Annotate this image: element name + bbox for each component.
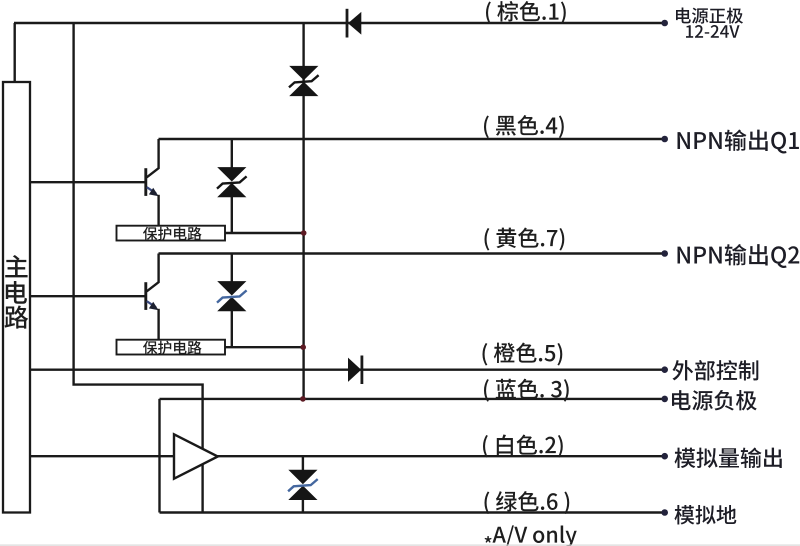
junction dot node K2 [300,344,306,350]
TVS diode Z1 bidirectional [289,66,318,80]
transistor Q2 collector [147,254,159,292]
transistor Q2 emitter line [147,301,156,307]
wire base Q1 [30,181,145,183]
TVS diode Z2 lower lead [231,197,233,234]
protection circuit box 2 [117,340,226,355]
label (绿色.6) [484,491,569,514]
transistor Q1 emitter line [147,187,156,193]
label (白色.2) [483,435,563,458]
transistor Q1 collector [147,139,159,177]
wire main vertical bus [302,23,304,399]
op-amp block left edge [158,399,160,513]
wire NPN Q1 output [159,138,665,140]
TVS diode Z2 bidirectional [217,167,246,181]
transistor Q1 base bar [144,168,147,196]
wire protection box 2 to bus [225,346,304,348]
TVS diode Z2 upper lead [231,139,233,168]
label 模拟地 [674,505,736,524]
bottom edge artifact line [0,545,800,546]
diode D2 bar [360,356,363,385]
wire NPN Q2 output [159,252,665,254]
TVS diode Z3 upper lead [231,254,233,282]
label A/V only [493,525,577,546]
label (棕色.1) [486,1,566,24]
diode D1 triangle [348,12,361,35]
transistor Q2 emitter arrow [149,302,159,310]
terminal dot NPN output Q2 [661,250,668,257]
main circuit block 主电路 [3,82,30,513]
label 12-24V [686,25,740,38]
label NPN输出Q1 [678,130,799,154]
label (黄色.7) [484,228,564,251]
TVS diode Z3 bidirectional [217,281,246,295]
junction dot node K1 [301,230,307,236]
wire power negative [160,398,665,400]
terminal dot power negative [661,396,668,403]
transistor Q1 emitter arrow [149,188,159,196]
terminal dot NPN output Q1 [661,136,668,143]
op-amp U1 triangle [174,434,218,478]
label 外部控制 [673,360,759,381]
terminal dot external control [661,366,668,373]
label (蓝色.3) [484,379,569,402]
label 电源正极 [676,8,743,24]
label (橙色.5) [482,343,562,366]
label 保护电路 box2 [143,341,202,355]
wire vertical branch to op-amp block right edge [74,23,203,513]
TVS diode Z4 lower lead [302,500,304,513]
diode D2 triangle [348,358,361,382]
terminal dot analog output [661,453,668,460]
label 电源负极 [672,390,757,410]
wire protection box 1 to bus [225,232,304,234]
wire analog ground [160,511,665,513]
terminal dot analog ground [661,509,668,516]
label asterisk [485,536,492,543]
wire brown power rail [14,22,665,24]
wire vertical from power rail to main block [13,23,15,82]
wire external control [30,369,665,371]
label 主电路 vertical [5,255,29,329]
protection circuit box 1 [117,226,226,241]
wire Q2 emitter to protection box [157,309,159,340]
transistor Q2 base bar [144,282,147,310]
junction dot node K3 [300,396,306,402]
label 保护电路 box1 [143,227,202,241]
TVS diode Z4 bidirectional [288,470,317,484]
label 模拟量输出 [675,448,782,469]
wire base Q2 [30,295,145,297]
TVS diode Z3 lower lead [231,311,233,348]
wire analog output [30,455,665,457]
TVS diode Z4 upper lead [302,456,304,470]
label NPN输出Q2 [678,244,800,268]
terminal dot power positive [661,20,668,27]
diode D1 bar [346,9,349,38]
wire Q1 emitter to protection box [157,195,159,226]
label (黑色.4) [484,115,564,138]
